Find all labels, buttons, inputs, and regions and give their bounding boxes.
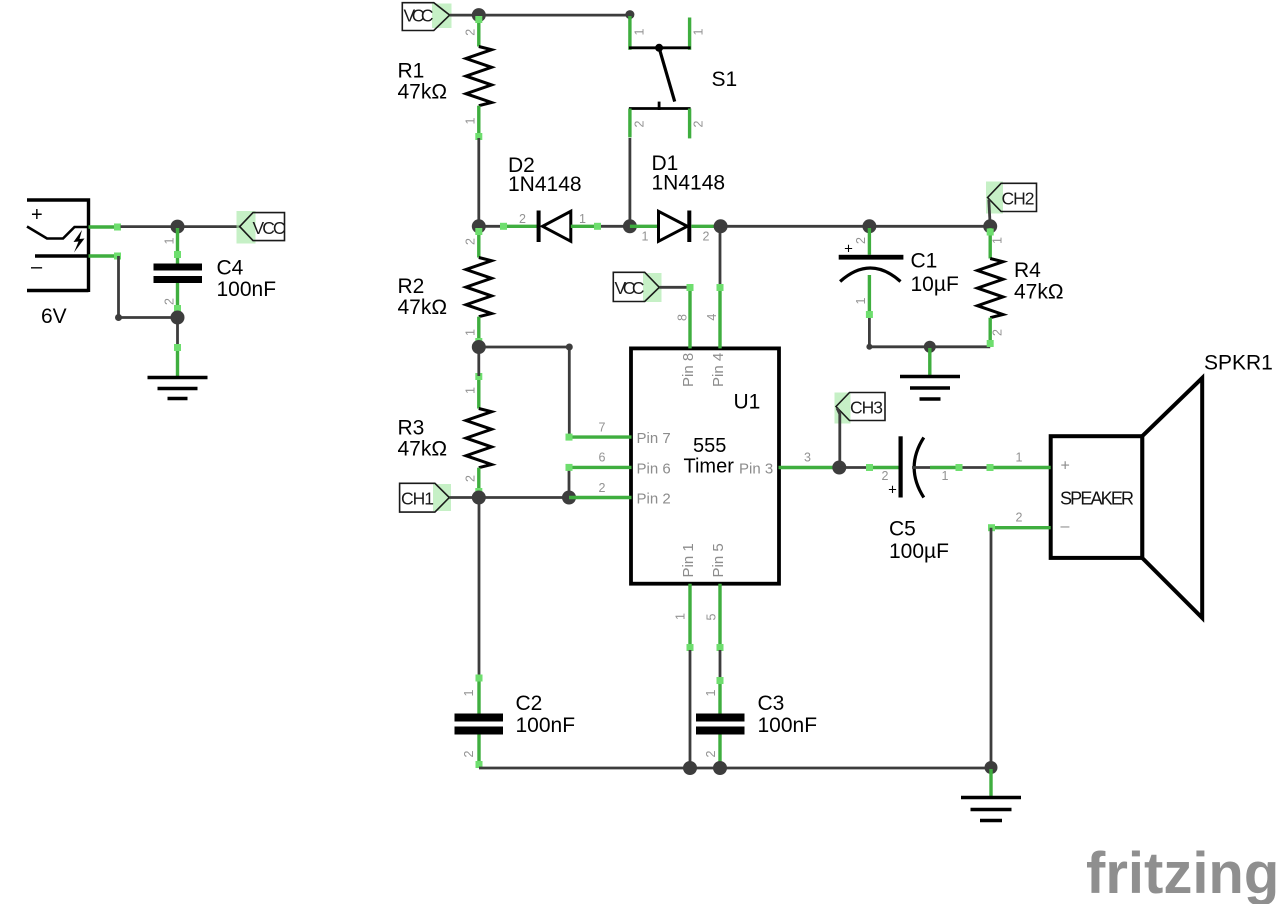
svg-text:R2: R2 xyxy=(398,275,425,298)
IC U1 555 timer body xyxy=(631,348,779,583)
node junction R2/R3/pin7 xyxy=(472,340,486,354)
resistor R2 xyxy=(463,228,491,345)
svg-text:2: 2 xyxy=(703,230,710,244)
svg-text:4: 4 xyxy=(705,314,719,321)
node junction R3 bottom / CH1 xyxy=(472,491,486,505)
svg-text:C1: C1 xyxy=(911,250,938,273)
wire battery+ to junction xyxy=(121,225,178,228)
svg-text:47kΩ: 47kΩ xyxy=(398,81,448,104)
node junction diode row left xyxy=(472,219,486,233)
svg-text:2: 2 xyxy=(991,329,1005,336)
node junction ground row xyxy=(924,341,936,353)
svg-text:C3: C3 xyxy=(758,692,785,715)
svg-text:2: 2 xyxy=(519,212,526,226)
svg-text:Pin 8: Pin 8 xyxy=(680,353,697,387)
IC pin 8 leg xyxy=(676,284,694,348)
label C1 10uF xyxy=(911,250,959,297)
svg-text:1: 1 xyxy=(579,212,586,226)
bendpoint xyxy=(115,314,122,321)
speaker pin 2 leg xyxy=(988,511,1051,532)
switch S1 xyxy=(629,16,705,138)
svg-text:100nF: 100nF xyxy=(516,714,576,737)
capacitor C2 100nF xyxy=(455,675,504,769)
speaker SPKR1 xyxy=(1051,378,1203,618)
svg-text:2: 2 xyxy=(1016,511,1023,525)
ground GND2 xyxy=(900,348,960,399)
svg-text:555: 555 xyxy=(693,435,726,457)
svg-text:C5: C5 xyxy=(889,518,916,541)
svg-text:3: 3 xyxy=(804,451,811,465)
svg-text:2: 2 xyxy=(704,750,718,757)
svg-text:47kΩ: 47kΩ xyxy=(398,296,448,319)
svg-text:1: 1 xyxy=(162,237,176,244)
svg-text:1: 1 xyxy=(464,387,478,394)
svg-text:1: 1 xyxy=(462,689,476,696)
svg-text:S1: S1 xyxy=(712,68,738,91)
battery pin 1 leg xyxy=(89,224,122,231)
wire R2 junction to R3 top xyxy=(477,347,480,376)
wire R1 bottom to diode-row junction xyxy=(477,138,480,226)
svg-text:1: 1 xyxy=(1016,451,1023,465)
svg-text:1: 1 xyxy=(691,28,705,35)
capacitor C4 pin 2 leg xyxy=(174,283,181,314)
svg-text:1: 1 xyxy=(991,237,1005,244)
battery J1 6V power jack symbol xyxy=(27,198,89,292)
svg-text:CH1: CH1 xyxy=(401,489,434,509)
IC pin 4 leg xyxy=(705,284,723,348)
svg-text:1N4148: 1N4148 xyxy=(652,172,726,195)
svg-text:2: 2 xyxy=(464,475,478,482)
wire junction to C5 xyxy=(839,466,869,469)
svg-text:Pin 4: Pin 4 xyxy=(710,353,727,387)
svg-text:2: 2 xyxy=(463,29,477,36)
capacitor C3 100nF xyxy=(696,677,745,768)
svg-text:2: 2 xyxy=(633,120,647,127)
wire VCC flag to R1 top junction xyxy=(450,14,479,17)
svg-text:fritzing: fritzing xyxy=(1086,841,1279,904)
svg-text:–: – xyxy=(31,256,43,278)
node junction pin3/C5 xyxy=(832,461,846,475)
svg-text:+: + xyxy=(1061,458,1070,475)
svg-text:CH3: CH3 xyxy=(850,398,883,418)
capacitor C4 plates xyxy=(154,264,203,284)
bendpoint at S1 xyxy=(625,10,634,19)
wire junction to pin7 xyxy=(479,347,570,437)
label R1 47k xyxy=(398,60,448,104)
label C3 100nF xyxy=(758,692,818,737)
svg-text:47kΩ: 47kΩ xyxy=(398,438,448,461)
IC pin 7 leg xyxy=(566,421,632,441)
capacitor C4 pin 1 leg xyxy=(174,228,181,264)
svg-text:7: 7 xyxy=(599,421,606,435)
bendpoint xyxy=(566,344,573,351)
wire to C1/R4 xyxy=(721,225,991,228)
svg-text:C4: C4 xyxy=(217,257,244,280)
svg-text:Timer: Timer xyxy=(684,456,735,478)
svg-text:R1: R1 xyxy=(398,60,425,83)
label R2 47k xyxy=(398,275,448,319)
label R3 47k xyxy=(398,417,448,461)
wire junction to switch S1 xyxy=(479,14,630,17)
wire S1 to diode-row junction xyxy=(629,138,632,226)
svg-text:Pin 3: Pin 3 xyxy=(739,461,773,478)
resistor R1 xyxy=(463,16,491,140)
svg-text:C2: C2 xyxy=(516,692,543,715)
net label CH3 (left-pointing flag) xyxy=(835,393,886,424)
label R4 47k xyxy=(1014,259,1064,304)
node junction battery/C4/VCC xyxy=(171,220,185,234)
wire VCC flag to pin8 xyxy=(659,286,690,289)
svg-text:–: – xyxy=(1061,518,1070,535)
svg-text:6: 6 xyxy=(599,451,606,465)
wire pin4 down xyxy=(719,226,722,288)
wire junction to D2 xyxy=(479,225,508,228)
IC pin 1 leg xyxy=(673,584,693,651)
svg-text:R3: R3 xyxy=(398,417,425,440)
svg-text:SPKR1: SPKR1 xyxy=(1204,352,1273,375)
svg-text:VCC: VCC xyxy=(253,218,286,238)
svg-text:100nF: 100nF xyxy=(758,714,818,737)
node junction bottom right xyxy=(985,761,998,774)
node junction diode row center xyxy=(623,219,637,233)
net label CH2 (left-pointing flag) xyxy=(986,182,1037,214)
svg-text:47kΩ: 47kΩ xyxy=(1014,281,1064,304)
svg-text:+: + xyxy=(888,482,897,499)
label C2 100nF xyxy=(516,692,576,737)
node junction C1 top xyxy=(862,219,876,233)
IC pin 5 leg xyxy=(705,584,724,651)
wire pin1 down to bottom bus xyxy=(689,650,692,768)
wire to pin2 junction xyxy=(479,496,569,499)
svg-text:2: 2 xyxy=(462,750,476,757)
svg-text:1: 1 xyxy=(854,297,868,304)
svg-text:VCC: VCC xyxy=(404,6,434,26)
IC pin 2 leg xyxy=(569,481,632,498)
node junction C4 bottom xyxy=(171,311,185,325)
wire pin5 to C3 xyxy=(719,650,722,679)
svg-text:SPEAKER: SPEAKER xyxy=(1060,489,1134,509)
wire CH1 to R3 junction xyxy=(449,496,479,499)
capacitor C5 100uF polarized xyxy=(866,436,963,498)
svg-text:Pin 2: Pin 2 xyxy=(637,491,671,508)
net label VCC (left-pointing flag) xyxy=(237,211,286,244)
resistor R3 xyxy=(464,373,492,496)
wire C5 to speaker xyxy=(963,466,990,469)
wire C4 junction to ground xyxy=(176,318,179,348)
label C4 100nF xyxy=(217,257,277,302)
svg-text:U1: U1 xyxy=(734,391,761,414)
capacitor C1 10uF polarized xyxy=(839,228,904,318)
svg-text:2: 2 xyxy=(463,238,477,245)
wire battery- down and to C4 bottom junction xyxy=(119,256,178,318)
wire CH2 to R4 junction xyxy=(989,200,990,227)
wire CH3 down to pin3 junction xyxy=(837,408,840,468)
battery pin 2 leg xyxy=(89,253,122,260)
svg-text:Pin 1: Pin 1 xyxy=(680,543,697,577)
diode D2 (cathode left) xyxy=(500,211,601,243)
node junction pin1 bottom xyxy=(683,761,697,775)
svg-text:R4: R4 xyxy=(1014,259,1041,282)
svg-text:10µF: 10µF xyxy=(911,273,959,296)
svg-text:5: 5 xyxy=(705,613,719,620)
svg-text:1: 1 xyxy=(642,230,649,244)
svg-text:8: 8 xyxy=(676,314,690,321)
IC pin 6 leg xyxy=(566,451,632,471)
svg-text:Pin 5: Pin 5 xyxy=(710,543,727,577)
svg-text:1: 1 xyxy=(463,117,477,124)
ground GND1 xyxy=(148,344,208,399)
wire pin6 drop to pin2 junction xyxy=(568,467,571,497)
svg-text:1: 1 xyxy=(673,613,687,620)
wire bottom bus xyxy=(479,767,991,770)
svg-text:2: 2 xyxy=(691,120,705,127)
svg-text:6V: 6V xyxy=(41,305,67,328)
svg-text:CH2: CH2 xyxy=(1002,189,1035,209)
svg-text:VCC: VCC xyxy=(615,278,645,298)
net label CH1 (right-pointing flag) xyxy=(400,483,451,512)
svg-text:Pin 7: Pin 7 xyxy=(637,430,671,447)
label D1 1N4148 xyxy=(652,152,726,195)
ground GND3 xyxy=(961,769,1021,821)
label C5 100uF xyxy=(889,518,949,564)
resistor R4 xyxy=(977,228,1004,347)
svg-text:100µF: 100µF xyxy=(889,540,949,563)
node junction R4 top xyxy=(983,219,997,233)
bendpoint xyxy=(866,344,872,350)
label D2 1N4148 xyxy=(508,154,582,196)
svg-text:1: 1 xyxy=(704,689,718,696)
svg-text:Pin 6: Pin 6 xyxy=(637,461,671,478)
wire D2 to center junction xyxy=(601,225,630,228)
svg-text:100nF: 100nF xyxy=(217,278,277,301)
svg-text:1: 1 xyxy=(463,329,477,336)
svg-text:1N4148: 1N4148 xyxy=(508,173,582,196)
wire speaker pin2 down to bottom junction xyxy=(990,528,993,768)
svg-text:2: 2 xyxy=(162,298,176,305)
node junction diode row right / pin4 xyxy=(714,219,728,233)
net label VCC top (right-pointing flag) xyxy=(402,3,451,31)
svg-text:2: 2 xyxy=(854,237,868,244)
wire CH1 junction down to C2 xyxy=(478,498,481,677)
node junction pin2 xyxy=(562,491,576,505)
speaker pin 1 leg xyxy=(987,451,1051,472)
svg-text:1: 1 xyxy=(942,469,949,483)
svg-text:1: 1 xyxy=(633,28,647,35)
svg-text:+: + xyxy=(31,204,43,226)
net label VCC at pin 8 (right-pointing flag) xyxy=(613,272,661,302)
wire C1 bottom to ground row xyxy=(869,318,990,347)
node junction C3 bottom xyxy=(713,761,727,775)
diode D1 (anode left) xyxy=(630,211,721,244)
wire junction to VCC flag xyxy=(178,225,240,228)
svg-text:2: 2 xyxy=(599,481,606,495)
node junction R1 top xyxy=(472,8,486,22)
IC pin 3 leg xyxy=(779,451,842,468)
